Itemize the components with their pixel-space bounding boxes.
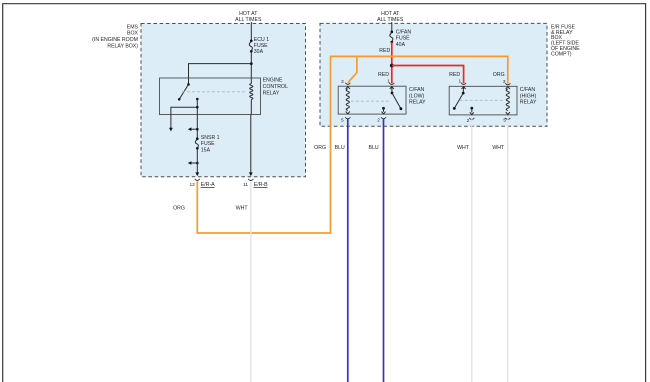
svg-text:BLU: BLU (335, 145, 345, 151)
engine control relay coil (250, 84, 253, 100)
C/FAN HIGH relay switch (453, 79, 466, 110)
svg-text:(LOW): (LOW) (409, 93, 425, 99)
wire: hot feed to ECU 1 fuse (250, 22, 252, 41)
svg-text:40A: 40A (396, 42, 406, 48)
wire: hot feed to C/FAN fuse (391, 22, 393, 32)
svg-text:ORG: ORG (493, 72, 505, 78)
C/FAN LOW relay coil (346, 87, 350, 114)
svg-text:RED: RED (378, 72, 389, 78)
wire BLU: LOW relay pin 2 down off page (383, 119, 385, 382)
svg-text:C/FAN: C/FAN (409, 87, 425, 93)
svg-text:ALL TIMES: ALL TIMES (235, 17, 262, 23)
connector 11 E/R-B (243, 179, 268, 188)
wire WHT: HIGH relay pin 5 down off page (507, 119, 509, 382)
wire: SNSR fuse to connector 12 (195, 148, 199, 176)
C/FAN LOW relay switch (387, 79, 402, 110)
wire: relay contact down to SNSR 1 fuse (196, 99, 198, 139)
node + wire: off-page branch (left arrow, lower) (188, 161, 199, 165)
svg-text:RELAY: RELAY (263, 90, 280, 96)
svg-text:HOT AT: HOT AT (239, 11, 258, 17)
C/FAN HIGH relay pin 2 (467, 107, 475, 124)
wire: branch to other circuit (down arrow) (169, 107, 197, 131)
svg-text:RELAY: RELAY (409, 100, 426, 106)
C/FAN LOW relay pin 5 (cup + label) (341, 117, 350, 123)
wire ORG: across E/R box to HIGH relay pin 3 (330, 56, 508, 83)
svg-text:COMPT): COMPT) (551, 52, 572, 58)
wire: relay coil to connector 11 (249, 100, 253, 177)
svg-text:FUSE: FUSE (201, 141, 215, 147)
svg-text:2: 2 (377, 118, 380, 124)
svg-text:RED: RED (379, 48, 390, 54)
node: junction at fuse output (250, 62, 253, 65)
wire ORG: connector 12 to E/R box (197, 56, 330, 233)
wire: ECU1 fuse to engine control relay coil (250, 51, 252, 83)
E/R fuse & relay box enclosure (320, 23, 580, 126)
svg-text:RELAY BOX): RELAY BOX) (107, 43, 138, 49)
fuse ECU 1 30A (249, 37, 269, 55)
svg-text:HOT AT: HOT AT (381, 11, 400, 17)
C/FAN HIGH relay linkage (dashed) (460, 99, 504, 101)
C/FAN HIGH relay coil (506, 87, 510, 115)
svg-text:2: 2 (467, 118, 470, 124)
svg-text:12: 12 (189, 182, 195, 188)
relay: C/FAN (HIGH) RELAY case (449, 86, 517, 115)
svg-text:ORG: ORG (314, 145, 326, 151)
svg-text:CONTROL: CONTROL (263, 84, 288, 90)
engine control relay switch (178, 83, 199, 101)
svg-text:1: 1 (387, 79, 390, 85)
fuse C/FAN 40A (390, 29, 412, 48)
engine control relay linkage (dashed) (182, 91, 246, 93)
C/FAN LOW relay pin 2 (377, 107, 386, 124)
svg-text:30A: 30A (254, 49, 264, 55)
relay: C/FAN (LOW) RELAY case (338, 86, 406, 114)
wire RED: fuse to LOW relay pin 1 (391, 42, 393, 83)
svg-text:1: 1 (458, 79, 461, 85)
node + wire: off-page branch (left arrow, upper) (188, 127, 199, 131)
connector 12 E/R-A (189, 179, 215, 188)
svg-text:WHT: WHT (457, 145, 470, 151)
EMS box (IN ENGINE ROOM RELAY BOX) enclosure (92, 24, 305, 177)
wire RED: junction to HIGH relay pin 1 (392, 66, 464, 84)
label C/FAN (HIGH) RELAY (520, 87, 537, 106)
C/FAN HIGH relay pin 3 (cup + label) (503, 79, 511, 85)
svg-text:C/FAN: C/FAN (520, 87, 536, 93)
svg-text:SNSR 1: SNSR 1 (201, 135, 220, 141)
svg-text:ALL TIMES: ALL TIMES (377, 17, 404, 23)
fuse SNSR 1 15A (195, 135, 219, 154)
svg-text:C/FAN: C/FAN (396, 29, 412, 35)
svg-text:WHT: WHT (236, 206, 249, 212)
power label HOT AT ALL TIMES (right) (377, 11, 404, 23)
svg-text:(IN ENGINE ROOM: (IN ENGINE ROOM (92, 37, 138, 43)
svg-text:15A: 15A (201, 147, 211, 153)
wire: junction to relay switch common (189, 64, 252, 85)
wire ORG branch to LOW relay pin 3 (348, 56, 357, 82)
power label HOT AT ALL TIMES (left) (235, 11, 262, 23)
svg-text:ORG: ORG (173, 206, 185, 212)
wire BLU: LOW relay pin 5 down off page (347, 119, 349, 382)
svg-text:11: 11 (243, 182, 248, 188)
node: branch junction inside relay (196, 106, 199, 109)
svg-text:EMS: EMS (127, 24, 139, 30)
svg-text:(HIGH): (HIGH) (520, 93, 537, 99)
svg-text:ENGINE: ENGINE (263, 78, 283, 84)
label C/FAN (LOW) RELAY (409, 87, 426, 106)
svg-text:3: 3 (503, 79, 506, 85)
relay: ENGINE CONTROL RELAY case (160, 78, 261, 115)
label ENGINE CONTROL RELAY (263, 78, 288, 97)
svg-text:5: 5 (503, 117, 506, 123)
node: red junction (390, 64, 394, 68)
svg-text:FUSE: FUSE (396, 36, 410, 42)
svg-text:5: 5 (341, 118, 344, 124)
svg-text:3: 3 (341, 79, 344, 85)
svg-text:BOX: BOX (127, 31, 138, 37)
C/FAN LOW relay linkage (dashed) (351, 100, 390, 102)
wire WHT: connector 11 down off page (250, 181, 252, 382)
svg-text:WHT: WHT (492, 145, 505, 151)
C/FAN LOW relay pin 3 (cup + label) (341, 79, 350, 85)
svg-text:BLU: BLU (369, 145, 379, 151)
svg-text:RELAY: RELAY (520, 100, 537, 106)
wire WHT: HIGH relay pin 2 down off page (471, 119, 473, 382)
svg-text:RED: RED (449, 72, 460, 78)
C/FAN HIGH relay pin 5 (cup + label) (503, 117, 510, 123)
